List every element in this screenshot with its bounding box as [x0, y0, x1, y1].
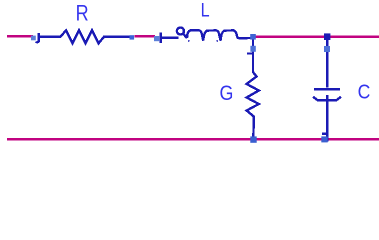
svg-text:C: C: [358, 81, 371, 103]
svg-text:R: R: [76, 2, 89, 26]
svg-text:L: L: [201, 0, 210, 21]
svg-text:G: G: [220, 82, 234, 106]
